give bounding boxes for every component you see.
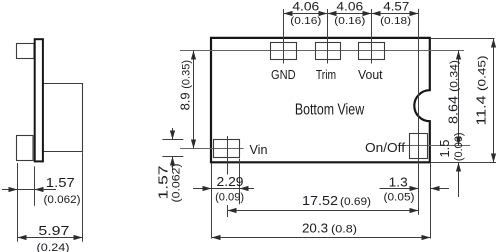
- svg-text:4.06: 4.06: [292, 0, 319, 14]
- dimension 1.57 side view: [2, 189, 56, 191]
- side view flange: [35, 39, 43, 161]
- extension line Vin pin bottom left: [162, 156, 183, 158]
- svg-text:2.29: 2.29: [217, 174, 244, 189]
- svg-text:(0.16): (0.16): [334, 16, 365, 27]
- extension line flange left down: [34, 166, 36, 205]
- dimension line top row: [284, 13, 419, 15]
- extension line Vin pin top left: [162, 139, 183, 141]
- dimension 2.29: [193, 188, 254, 190]
- svg-text:On/Off: On/Off: [365, 140, 405, 155]
- extension line GND center: [283, 9, 285, 64]
- svg-text:5.97: 5.97: [38, 223, 69, 238]
- svg-text:(0.69): (0.69): [340, 196, 371, 208]
- extension line box top right: [431, 38, 495, 40]
- extension line side pin left down: [17, 163, 19, 242]
- svg-text:Vout: Vout: [358, 67, 383, 82]
- svg-text:8.64 (0.34): 8.64 (0.34): [446, 60, 461, 124]
- extension line On/Off center: [418, 9, 420, 215]
- svg-text:1.5: 1.5: [437, 139, 452, 157]
- extension line body right down: [82, 152, 84, 242]
- extension line box right down: [430, 163, 432, 238]
- svg-text:(0.06): (0.06): [453, 132, 465, 161]
- pin GND: [271, 43, 297, 60]
- dimension 5.97 side view: [18, 237, 83, 239]
- svg-text:1.3: 1.3: [389, 175, 408, 190]
- dimension 20.3: [212, 237, 431, 239]
- Vin centerline: [180, 148, 244, 150]
- svg-text:20.3: 20.3: [302, 221, 328, 236]
- extension stub Vin center: [227, 205, 229, 217]
- svg-text:(0.05): (0.05): [384, 192, 415, 204]
- svg-text:(0.062): (0.062): [44, 194, 81, 206]
- extension line Vin center vertical: [227, 136, 229, 175]
- dimension 8.9 vertical: [193, 51, 195, 149]
- svg-text:1.57: 1.57: [156, 166, 171, 200]
- pin On/Off: [410, 134, 428, 159]
- extension line box left down: [211, 163, 213, 238]
- svg-text:4.06: 4.06: [336, 0, 363, 14]
- svg-text:GND: GND: [271, 67, 296, 82]
- dimension 11.4 vertical right: [493, 39, 495, 163]
- svg-text:17.52: 17.52: [302, 193, 338, 208]
- svg-text:(0.18): (0.18): [380, 16, 411, 27]
- dimension 1.57 Vin pin height: [172, 128, 174, 140]
- svg-text:(0.24): (0.24): [37, 242, 70, 252]
- svg-text:(0.062): (0.062): [171, 164, 183, 203]
- svg-text:8.9 (0.35): 8.9 (0.35): [177, 60, 192, 110]
- top pins centerline: [180, 50, 464, 52]
- dimension 17.52: [228, 210, 419, 212]
- svg-text:Vin: Vin: [250, 142, 268, 157]
- pin Vout: [359, 43, 385, 60]
- extension line Vout center: [371, 9, 373, 64]
- side view pin 1: [17, 44, 35, 59]
- extension line Trim center: [327, 9, 329, 64]
- svg-text:(0.09): (0.09): [215, 191, 244, 203]
- dimension 1.3: [380, 188, 419, 190]
- svg-text:11.4 (0.45): 11.4 (0.45): [473, 56, 488, 126]
- pin Vin: [214, 140, 240, 158]
- bottom view outline with notch: [211, 38, 430, 162]
- pin Trim: [316, 43, 341, 60]
- extension line Vin right edge down: [239, 159, 241, 205]
- svg-text:Trim: Trim: [316, 67, 336, 82]
- svg-text:4.57: 4.57: [383, 0, 409, 14]
- svg-text:Bottom View: Bottom View: [295, 102, 365, 119]
- svg-text:(0.8): (0.8): [331, 224, 357, 236]
- side view body: [43, 84, 83, 152]
- side view pin 2: [17, 136, 34, 161]
- extension line box bottom right: [431, 162, 496, 164]
- On/Off centerline: [405, 145, 470, 147]
- svg-text:1.57: 1.57: [46, 175, 75, 190]
- svg-text:(0.16): (0.16): [290, 16, 321, 27]
- dimension 1.5 right: [458, 163, 460, 198]
- dimension 8.64 vertical right: [458, 51, 460, 146]
